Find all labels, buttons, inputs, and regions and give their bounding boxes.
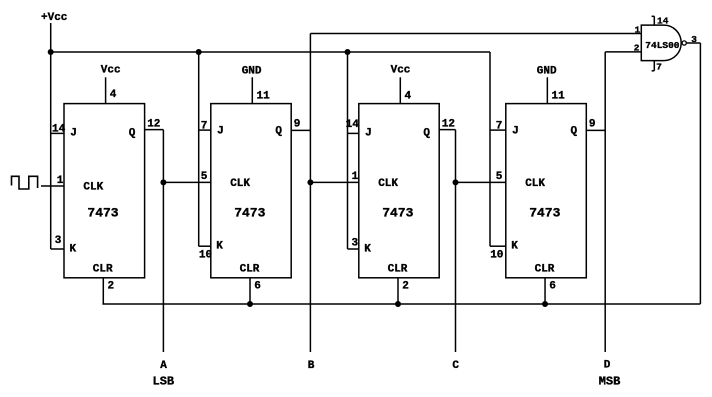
wire clock to U1 CLK pin 1	[41, 185, 64, 187]
U4 pin number 5	[496, 171, 503, 183]
U4 label GND	[537, 65, 557, 77]
junction Q2/CLK3	[307, 179, 313, 185]
U5 label 74LS00	[645, 40, 680, 51]
svg-text:J: J	[512, 125, 519, 137]
U4 label CLR	[535, 264, 555, 276]
svg-text:A: A	[160, 360, 167, 372]
U1 power stub pin 4	[105, 77, 107, 103]
svg-text:D: D	[604, 360, 611, 372]
svg-text:K: K	[364, 243, 371, 255]
svg-text:11: 11	[257, 91, 271, 103]
U3 label Vcc	[391, 65, 411, 77]
U3 Q stub pin 12	[439, 129, 455, 131]
svg-text:7473: 7473	[382, 206, 413, 221]
U4 pin number 6	[549, 281, 556, 293]
U5 pin number 7	[656, 62, 662, 73]
U3 label CLR	[388, 264, 408, 276]
U4 power stub pin 11	[546, 77, 548, 103]
U4 Q stub pin 9	[586, 129, 605, 131]
U1 pin number 14	[52, 124, 66, 136]
U2 pin number 7	[201, 121, 208, 133]
svg-text:7: 7	[496, 121, 503, 133]
U3 pin number 14	[346, 119, 360, 131]
U1 pin number 12	[147, 119, 160, 131]
svg-text:K: K	[70, 243, 77, 255]
svg-text:2: 2	[108, 281, 115, 293]
U1 Q stub pin 12	[145, 129, 164, 131]
svg-text:12: 12	[442, 119, 455, 131]
flip-flop U3 7473 body	[359, 104, 439, 278]
U2 pin number 5	[201, 171, 208, 183]
node label D	[604, 360, 611, 372]
U1 CLR stub pin 2	[102, 278, 104, 304]
svg-text:CLK: CLK	[230, 178, 250, 190]
nand gate U5 74LS00 body	[641, 25, 681, 61]
junction rail to U2	[196, 49, 202, 55]
junction CLR U3	[395, 301, 401, 307]
svg-text:9: 9	[589, 119, 596, 131]
node label LSB	[153, 375, 175, 389]
svg-text:Vcc: Vcc	[101, 65, 121, 77]
U5 Vcc stub pin 14	[652, 16, 655, 25]
svg-text:Q: Q	[423, 128, 430, 140]
svg-text:Vcc: Vcc	[391, 65, 411, 77]
U1 label Vcc	[101, 65, 121, 77]
svg-text:7473: 7473	[87, 206, 118, 221]
wire J-K tie U3	[347, 52, 349, 249]
U2 label K	[216, 241, 223, 253]
U2 label GND	[242, 65, 262, 77]
svg-text:CLR: CLR	[240, 264, 260, 276]
U2 K stub pin 10	[199, 245, 211, 247]
flip-flop U1 7473 body	[64, 104, 145, 278]
svg-text:Q: Q	[129, 128, 136, 140]
U3 label CLK	[378, 178, 398, 190]
wire Q1 to U2 CLK pin 5	[163, 181, 210, 183]
U4 label J	[512, 125, 519, 137]
U3 K stub pin 3	[348, 248, 359, 250]
wire +Vcc vertical / J-K tie U1	[50, 23, 52, 249]
U2 label CLK	[230, 178, 250, 190]
svg-text:14: 14	[52, 124, 66, 136]
U3 label Q	[423, 128, 430, 140]
svg-text:10: 10	[199, 250, 212, 262]
U5 pin number 14	[657, 15, 669, 26]
U3 label K	[364, 243, 371, 255]
wire CLR bus	[102, 303, 700, 305]
U4 label 7473	[529, 206, 560, 221]
svg-text:3: 3	[691, 34, 697, 45]
svg-text:4: 4	[110, 89, 117, 101]
wire Q3 to U4 CLK pin 5	[456, 181, 506, 183]
U5 pin number 3	[691, 34, 697, 45]
junction rail to U3	[345, 49, 351, 55]
svg-text:Q: Q	[571, 125, 578, 137]
wire J-K tie U4	[489, 52, 491, 246]
svg-text:4: 4	[405, 91, 412, 103]
U4 label K	[511, 241, 518, 253]
svg-text:12: 12	[147, 119, 160, 131]
svg-text:6: 6	[549, 281, 556, 293]
U3 pin number 2	[402, 281, 409, 293]
svg-text:CLR: CLR	[93, 264, 113, 276]
svg-text:2: 2	[402, 281, 409, 293]
svg-text:CLR: CLR	[388, 264, 408, 276]
svg-text:J: J	[70, 128, 77, 140]
U2 pin number 10	[199, 250, 212, 262]
svg-text:1: 1	[352, 171, 359, 183]
U4 CLR stub pin 6	[544, 278, 546, 304]
U1 label J	[70, 128, 77, 140]
svg-text:6: 6	[254, 281, 261, 293]
U1 label 7473	[87, 206, 118, 221]
svg-text:7473: 7473	[529, 206, 560, 221]
U4 label Q	[571, 125, 578, 137]
svg-text:7473: 7473	[234, 206, 265, 221]
U4 pin number 11	[552, 91, 566, 103]
svg-text:C: C	[452, 360, 459, 372]
svg-text:CLK: CLK	[83, 182, 103, 194]
svg-text:B: B	[308, 360, 315, 372]
svg-text:+Vcc: +Vcc	[41, 12, 67, 24]
wire U5 output pin 3	[686, 42, 700, 44]
svg-text:1: 1	[635, 25, 641, 36]
svg-text:LSB: LSB	[153, 375, 175, 389]
svg-text:CLR: CLR	[535, 264, 555, 276]
U1 label K	[70, 243, 77, 255]
flip-flop U2 7473 body	[211, 104, 291, 278]
svg-text:5: 5	[201, 171, 208, 183]
power label +Vcc	[41, 12, 67, 24]
U2 label Q	[275, 125, 282, 137]
U1 K stub pin 3	[51, 248, 64, 250]
svg-text:J: J	[217, 125, 224, 137]
node B vertical (Q2)	[309, 34, 311, 353]
U1 pin number 2	[108, 281, 115, 293]
U2 label CLR	[240, 264, 260, 276]
U1 pin number 1	[57, 175, 64, 187]
U2 label J	[217, 125, 224, 137]
wire NAND output to CLR bus	[699, 43, 701, 304]
wire +Vcc rail	[51, 51, 490, 53]
U3 pin number 4	[405, 91, 412, 103]
svg-text:2: 2	[634, 42, 640, 53]
wire Q2 to NAND input 1	[310, 33, 641, 35]
U1 pin number 4	[110, 89, 117, 101]
wire Q4 to NAND input 2	[605, 51, 641, 53]
svg-text:Q: Q	[275, 125, 282, 137]
svg-text:7: 7	[656, 62, 662, 73]
junction Q3/CLK4	[453, 179, 459, 185]
U1 J stub pin 14	[51, 132, 64, 134]
U3 label J	[365, 128, 372, 140]
junction CLR U2	[247, 301, 253, 307]
U3 pin number 1	[352, 171, 359, 183]
svg-text:CLK: CLK	[525, 178, 545, 190]
svg-text:CLK: CLK	[378, 178, 398, 190]
svg-text:11: 11	[552, 91, 566, 103]
svg-text:14: 14	[657, 15, 669, 26]
U4 K stub pin 10	[490, 245, 506, 247]
wire J-K tie U2	[198, 52, 200, 246]
U3 power stub pin 4	[399, 77, 401, 103]
U4 pin number 7	[496, 121, 503, 133]
svg-text:J: J	[365, 128, 372, 140]
U4 pin number 9	[589, 119, 596, 131]
junction +Vcc at U1	[48, 49, 54, 55]
U4 label CLK	[525, 178, 545, 190]
svg-text:K: K	[511, 241, 518, 253]
U5 output bubble	[682, 41, 686, 45]
U5 pin number 1	[635, 25, 641, 36]
svg-text:1: 1	[57, 175, 64, 187]
svg-text:GND: GND	[537, 65, 557, 77]
node C vertical (Q3)	[455, 130, 457, 352]
node label C	[452, 360, 459, 372]
svg-text:5: 5	[496, 171, 503, 183]
svg-text:3: 3	[55, 235, 62, 247]
U2 pin number 6	[254, 281, 261, 293]
svg-text:9: 9	[294, 119, 301, 131]
U2 pin number 9	[294, 119, 301, 131]
junction CLR U4	[542, 301, 548, 307]
svg-text:10: 10	[490, 250, 503, 262]
U1 pin number 3	[55, 235, 62, 247]
svg-text:74LS00: 74LS00	[645, 40, 680, 51]
node label A	[160, 360, 167, 372]
U1 label Q	[129, 128, 136, 140]
clock waveform symbol	[12, 176, 38, 189]
svg-text:7: 7	[201, 121, 208, 133]
svg-text:3: 3	[352, 238, 359, 250]
junction Q1/CLK2	[160, 179, 166, 185]
U2 pin number 11	[257, 91, 271, 103]
node A vertical (Q1)	[162, 130, 164, 352]
U1 label CLR	[93, 264, 113, 276]
U2 power stub pin 11	[251, 77, 253, 103]
svg-text:MSB: MSB	[599, 375, 621, 389]
U5 gnd stub pin 7	[652, 61, 655, 71]
U1 label CLK	[83, 182, 103, 194]
U2 CLR stub pin 6	[249, 278, 251, 304]
svg-text:K: K	[216, 241, 223, 253]
node label B	[308, 360, 315, 372]
U2 J stub pin 7	[199, 129, 211, 131]
wire Q2 to U3 CLK pin 1	[310, 181, 358, 183]
svg-text:GND: GND	[242, 65, 262, 77]
U5 pin number 2	[634, 42, 640, 53]
U3 pin number 12	[442, 119, 455, 131]
U2 label 7473	[234, 206, 265, 221]
node label MSB	[599, 375, 621, 389]
U3 CLR stub pin 2	[397, 278, 399, 304]
U3 J stub pin 14	[348, 132, 359, 134]
U2 Q stub pin 9	[291, 129, 310, 131]
svg-text:14: 14	[346, 119, 360, 131]
U4 pin number 10	[490, 250, 503, 262]
U4 J stub pin 7	[490, 129, 506, 131]
U3 pin number 3	[352, 238, 359, 250]
U3 label 7473	[382, 206, 413, 221]
node D vertical (Q4)	[604, 52, 606, 352]
flip-flop U4 7473 body	[506, 104, 587, 278]
